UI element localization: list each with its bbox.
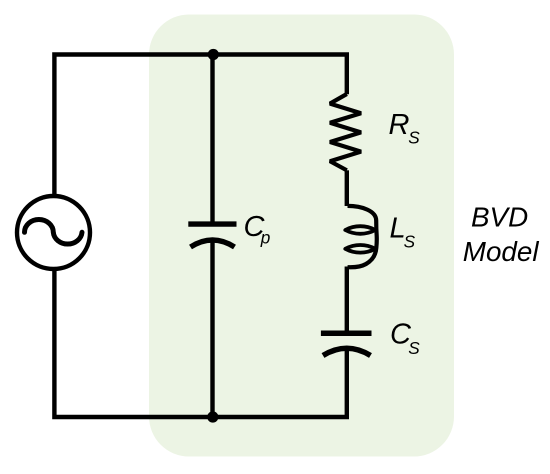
wire: left + top rail + down to resistor [54,55,346,195]
svg-text:BVD: BVD [471,202,528,233]
label RS [389,109,421,148]
wire: Cp branch upper [210,55,214,222]
wire: left bottom + bottom rail + up to Cs [54,271,346,418]
wire: Cp branch lower [210,240,214,417]
label BVD Model [463,202,540,268]
label Cp [244,211,271,248]
AC source V1 [17,196,90,269]
svg-text:S: S [404,231,416,251]
resistor RS [330,94,361,170]
svg-text:Model: Model [463,236,540,267]
capacitor CS [321,333,372,355]
node: top junction [208,49,219,60]
node: bottom junction [207,411,218,422]
inductor LS [345,206,376,267]
svg-text:S: S [408,128,420,148]
svg-text:S: S [408,338,420,358]
svg-text:p: p [260,228,271,248]
label CS [390,319,420,358]
wire: inductor to Cs [345,267,349,331]
svg-text:R: R [389,109,410,141]
capacitor Cp [188,224,236,247]
BVD model shaded region [149,15,454,457]
wire: resistor to inductor [345,170,349,206]
label LS [390,213,416,252]
